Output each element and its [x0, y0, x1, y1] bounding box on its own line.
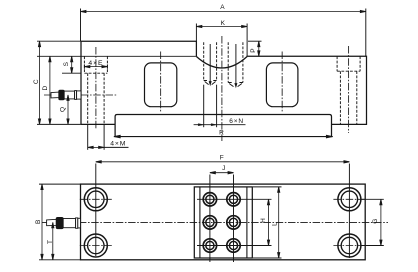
- dimension P extension line: [248, 40, 262, 42]
- plan: center block outline: [194, 187, 252, 258]
- right hole centerline: [348, 46, 350, 133]
- cable centerline side view: [44, 94, 117, 96]
- svg-text:J: J: [222, 165, 225, 172]
- plan: block hole column centerlines: [209, 175, 211, 263]
- dimension 4xM: [88, 146, 104, 148]
- dimension T: [52, 222, 54, 259]
- right deep hole V bottom (hidden): [228, 83, 243, 87]
- right deep hole centerline + tip arrow: [235, 44, 237, 84]
- block hole (209.9,199.3) outer: [203, 193, 216, 206]
- left rounded cutout: [145, 63, 177, 107]
- left deep hole V bottom (hidden): [204, 81, 217, 85]
- left deep hole centerline + tip arrow: [209, 44, 211, 82]
- svg-text:C: C: [33, 79, 40, 84]
- G extension lines: [361, 198, 384, 200]
- block hole (209.9,245.5) inner: [206, 241, 214, 249]
- right hole counterbore walls (hidden): [336, 56, 338, 71]
- dimension L: [278, 187, 280, 258]
- dimension D: [49, 56, 51, 124]
- dimension 4xM extension lines: [87, 125, 89, 150]
- end hole (349.4,245.5) bore M: [341, 237, 357, 253]
- dimension K: [196, 25, 247, 27]
- plan view: bar outline: [81, 184, 366, 260]
- right deep hole hidden walls: [227, 42, 229, 82]
- svg-text:R: R: [219, 130, 224, 137]
- dimension 4xE stubs: [83, 64, 85, 68]
- plan: end holes horizontal centerlines: [80, 198, 112, 200]
- svg-text:T: T: [47, 240, 54, 244]
- block hole (209.9,245.5) outer: [203, 239, 216, 252]
- end hole (95.8,199.3) bore M: [88, 191, 104, 207]
- end hole (95.8,245.5) counterbore E: [84, 234, 107, 257]
- left hole counterbore walls (hidden): [83, 56, 85, 73]
- side view: bottom mounting strip: [115, 115, 331, 137]
- svg-text:B: B: [35, 220, 42, 224]
- right rounded cutout: [266, 63, 298, 107]
- C top extension line: [37, 40, 81, 42]
- B extension lines: [39, 183, 81, 185]
- svg-text:Q: Q: [60, 107, 67, 112]
- C/D bottom extension line: [37, 123, 81, 125]
- 4xM label underline extension: [104, 146, 128, 148]
- plan: cable connector: [47, 218, 81, 229]
- dimension A: [81, 10, 366, 12]
- plan: block hole row lines: [197, 198, 272, 200]
- plan: center block inner edges: [199, 187, 201, 258]
- dimension H: [267, 199, 269, 245]
- right hole bore walls (hidden): [339, 71, 341, 124]
- block hole (233.5,245.5) inner: [229, 241, 237, 249]
- S bottom extension line: [62, 72, 81, 74]
- block hole (209.9,199.3) inner: [206, 195, 214, 203]
- left deep hole hidden walls (also 6xN feature): [203, 42, 205, 80]
- dimension P: [258, 41, 260, 56]
- dimension G: [380, 199, 382, 245]
- svg-text:L: L: [271, 222, 278, 226]
- left hole centerline: [95, 47, 97, 129]
- plan: left hole column centerline (F extension): [95, 164, 97, 257]
- left hole bore walls (hidden): [87, 73, 89, 124]
- cable connector side view: [51, 90, 81, 100]
- svg-text:S: S: [63, 61, 70, 66]
- dimension B: [41, 184, 43, 260]
- block hole (233.5,222.4) outer: [227, 216, 240, 229]
- end hole (349.4,199.3) counterbore E: [338, 188, 361, 211]
- block hole (233.5,199.3) outer: [227, 193, 240, 206]
- right hole counterbore bottom (hidden): [337, 70, 360, 72]
- dimension F: [96, 161, 350, 163]
- dimension 4xE: [84, 65, 107, 67]
- dimension C: [38, 41, 40, 124]
- block hole (233.5,245.5) outer: [227, 239, 240, 252]
- svg-text:4×M: 4×M: [110, 141, 126, 148]
- left cutout centerline: [160, 52, 162, 113]
- side view: full-length ledge line: [37, 55, 196, 57]
- svg-text:G: G: [372, 219, 379, 224]
- end hole (95.8,199.3) counterbore E: [84, 188, 107, 211]
- svg-text:H: H: [260, 218, 267, 223]
- svg-text:K: K: [221, 20, 226, 27]
- svg-text:4×E: 4×E: [88, 60, 103, 67]
- block hole (209.9,222.4) outer: [203, 216, 216, 229]
- end hole (349.4,245.5) counterbore E: [338, 234, 361, 257]
- end hole (349.4,199.3) bore M: [341, 191, 357, 207]
- dimension J: [210, 172, 234, 174]
- svg-text:A: A: [220, 4, 225, 11]
- plan view: main horizontal centerline: [42, 221, 388, 223]
- 6xN extension lines (left hole walls extended): [203, 85, 205, 128]
- L extension lines: [253, 186, 282, 188]
- end hole (95.8,245.5) bore M: [88, 237, 104, 253]
- dimension 6xN line: [194, 124, 246, 126]
- right cutout centerline: [281, 52, 283, 113]
- svg-text:6×N: 6×N: [229, 118, 244, 125]
- dimension K extension lines: [195, 24, 197, 43]
- dimension Q: [67, 95, 69, 124]
- svg-text:D: D: [42, 86, 49, 91]
- dimension S: [71, 56, 73, 73]
- block hole (233.5,222.4) inner: [229, 218, 237, 226]
- dimension A extension lines: [80, 9, 82, 42]
- block hole (209.9,222.4) inner: [206, 218, 214, 226]
- block hole (233.5,199.3) inner: [229, 195, 237, 203]
- side view: load cell body outline: [81, 41, 367, 124]
- main centerline side view: [221, 36, 223, 141]
- svg-text:F: F: [220, 155, 224, 162]
- svg-text:P: P: [250, 48, 257, 52]
- dimension R (strip bottom edge doubles as dim line): [114, 135, 333, 137]
- plan: right hole column centerline (F extension): [348, 164, 350, 259]
- left hole counterbore bottom (hidden): [84, 72, 107, 74]
- 6xN arrows: [198, 124, 216, 126]
